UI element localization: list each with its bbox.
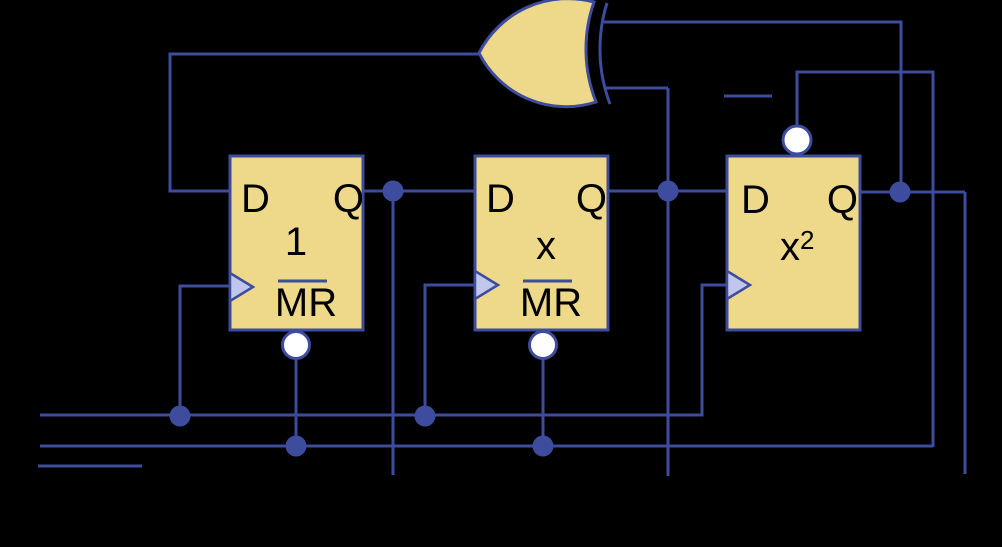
wire: U2 MR bubble stem — [295, 357, 298, 446]
svg-text:Q: Q — [827, 178, 858, 222]
flip-flop U3 clock triangle — [475, 271, 498, 299]
wire: XOR output to D of U2 — [170, 54, 479, 191]
wire: Q2 output U3 to D of U4 — [608, 190, 727, 193]
flip-flop U2 clock triangle — [230, 273, 253, 301]
svg-text:Q: Q — [333, 177, 364, 221]
wire: Q3 output of U4 — [860, 191, 965, 194]
svg-text:x: x — [536, 224, 556, 268]
svg-text:D: D — [241, 177, 270, 221]
flip-flop U4 clock triangle — [727, 271, 750, 299]
xor gate U1 input arc — [600, 3, 610, 104]
wire: U3 MR bubble stem — [542, 356, 545, 446]
wire: XOR top input from Q of U4 — [604, 22, 901, 192]
wire: Q3 vertical tap — [964, 192, 967, 474]
wire: reset net horizontal — [40, 445, 933, 448]
junction: Q1 node — [383, 181, 404, 202]
junction: clock net at U2 branch — [170, 406, 191, 427]
junction: clock net at U3 branch — [415, 406, 436, 427]
flip-flop U3 body — [475, 156, 608, 330]
flip-flop U2 MR bubble — [283, 332, 310, 359]
wire: short dash above U4 — [724, 95, 772, 98]
wire: U4 MR bubble to reset net — [797, 72, 933, 447]
flip-flop U2 body — [230, 156, 363, 330]
junction: Q2 node — [658, 181, 679, 202]
junction: Q3 node — [890, 182, 911, 203]
svg-text:D: D — [486, 177, 515, 221]
svg-text:MR: MR — [520, 281, 582, 325]
wire: Q of U3 vertical tap — [667, 88, 670, 476]
svg-text:D: D — [741, 178, 770, 222]
xor gate U1 body — [479, 0, 596, 107]
svg-text:Q: Q — [576, 177, 607, 221]
svg-text:1: 1 — [285, 220, 307, 264]
flip-flop U2 MR overbar — [278, 280, 327, 283]
flip-flop U4 body — [727, 156, 860, 330]
wire: clock branch to U2 — [180, 286, 231, 416]
wire: XOR bottom input from Q of U3 — [605, 87, 668, 90]
wire: Q1 output U2 to D of U3 — [363, 190, 475, 193]
flip-flop U4 MR bubble — [783, 126, 811, 154]
wire: bottom stub — [38, 465, 142, 468]
wire: clock branch to U3 — [425, 285, 476, 416]
wire: clock net horizontal — [40, 285, 728, 415]
junction: reset net at U2 stem — [286, 436, 307, 457]
flip-flop U3 MR overbar — [523, 280, 572, 283]
flip-flop U3 MR bubble — [530, 332, 557, 359]
svg-text:MR: MR — [275, 281, 337, 325]
junction: reset net at U3 stem — [533, 436, 554, 457]
wire: Q1 vertical tap — [392, 191, 395, 475]
